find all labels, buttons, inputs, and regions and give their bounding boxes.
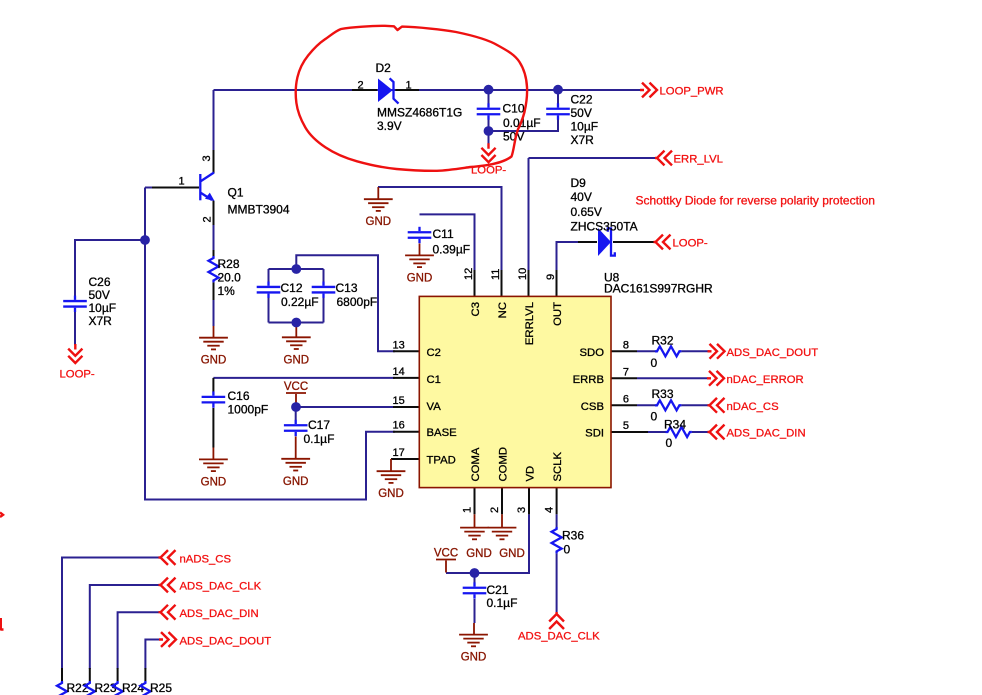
junction C12/C13 top — [291, 264, 301, 274]
svg-text:14: 14 — [393, 366, 405, 378]
black stub IC pin3 VD — [528, 488, 530, 514]
svg-text:10: 10 — [517, 268, 529, 280]
svg-text:R23: R23 — [95, 681, 117, 695]
svg-text:0: 0 — [651, 410, 658, 424]
svg-text:C21: C21 — [487, 583, 509, 597]
resistor R36 — [552, 527, 562, 553]
svg-text:OUT: OUT — [552, 302, 564, 326]
svg-text:GND: GND — [466, 548, 492, 560]
ground (TPAD) — [377, 471, 406, 500]
wire CSB row — [637, 404, 710, 406]
svg-text:C3: C3 — [470, 302, 482, 316]
svg-text:50V: 50V — [571, 106, 592, 120]
svg-text:10µF: 10µF — [571, 120, 599, 134]
black pin lead Q1 emitter — [213, 201, 215, 226]
svg-text:15: 15 — [393, 395, 405, 407]
svg-text:LOOP_PWR: LOOP_PWR — [660, 86, 724, 98]
svg-text:20.0: 20.0 — [218, 271, 242, 285]
maroon lead GND of R28 — [213, 326, 215, 338]
zener diode D2 — [378, 78, 399, 103]
svg-text:1000pF: 1000pF — [228, 403, 269, 417]
svg-text:NC: NC — [497, 302, 509, 318]
ground (C17) — [281, 459, 310, 488]
svg-text:5: 5 — [623, 420, 629, 432]
wire ADS_DAC_CLK harness — [90, 585, 159, 669]
net connector up ADS_DAC_CLK (R36) — [549, 612, 564, 629]
svg-text:ZHCS350TA: ZHCS350TA — [571, 220, 638, 234]
black stub IC pin7 ERRB — [611, 377, 637, 379]
svg-text:ADS_DAC_CLK: ADS_DAC_CLK — [180, 581, 262, 593]
net connector out LOOP_PWR — [640, 83, 657, 98]
svg-text:nADS_CS: nADS_CS — [180, 553, 232, 565]
wire Q1 base — [145, 187, 199, 189]
wire C21 lower lead — [474, 599, 476, 623]
svg-text:C26: C26 — [89, 275, 111, 289]
resistor R28 — [209, 256, 219, 282]
wire C10 upper lead — [488, 93, 490, 104]
svg-text:SDI: SDI — [585, 428, 604, 440]
ground (C12/C13) — [282, 337, 311, 366]
svg-text:D2: D2 — [376, 61, 392, 75]
svg-text:1: 1 — [406, 80, 412, 92]
net connector in nDAC_CS — [708, 398, 725, 413]
black stub IC pin5 SDI — [611, 431, 648, 433]
svg-text:ADS_DAC_DOUT: ADS_DAC_DOUT — [727, 347, 819, 359]
svg-text:nDAC_CS: nDAC_CS — [727, 401, 780, 413]
svg-text:R33: R33 — [652, 387, 674, 401]
svg-text:BASE: BASE — [427, 427, 458, 439]
black pin lead Q1 base — [152, 187, 199, 189]
svg-text:R32: R32 — [652, 334, 674, 348]
svg-text:9: 9 — [545, 274, 557, 280]
maroon lead GND of C16 — [212, 448, 214, 460]
resistor R34 — [666, 427, 692, 437]
svg-text:C11: C11 — [433, 227, 454, 241]
svg-text:0.1µF: 0.1µF — [304, 432, 335, 446]
black stub IC pin9 — [556, 270, 558, 296]
net connector in ADS_DAC_CLK (harness) — [159, 578, 176, 593]
svg-text:6800pF: 6800pF — [337, 295, 378, 309]
black stub IC pin14 — [393, 377, 419, 379]
black stub IC pin13 — [393, 350, 419, 352]
wire Q1 collector riser — [213, 90, 215, 173]
svg-text:8: 8 — [623, 339, 629, 351]
resistor R24 — [113, 681, 123, 695]
svg-text:11: 11 — [490, 269, 502, 280]
wire ADS_DAC_DIN harness — [118, 612, 159, 669]
net connector out ADS_DAC_DOUT (harness) — [159, 632, 176, 647]
junction VCC/VA — [291, 402, 301, 412]
svg-text:40V: 40V — [571, 190, 592, 204]
capacitor C22 — [546, 103, 570, 119]
svg-text:R25: R25 — [150, 681, 172, 695]
wire SDO row — [637, 350, 710, 352]
black pin leads D2 — [352, 89, 419, 91]
net connector in nADS_CS — [159, 550, 176, 565]
black lead D9 anode — [578, 241, 597, 243]
wire nADS_CS harness — [62, 558, 159, 670]
svg-text:DAC161S997RGHR: DAC161S997RGHR — [604, 282, 713, 296]
black lead D9 cathode — [613, 241, 654, 243]
wire C12/C13 top net to pin13 C2 — [296, 255, 395, 351]
svg-text:C17: C17 — [308, 418, 330, 432]
ground (COMD) — [488, 528, 517, 540]
svg-text:Q1: Q1 — [228, 186, 244, 200]
black stub IC pin17 TPAD — [391, 458, 419, 460]
wire C21 upper lead — [474, 573, 476, 583]
wire VD to VCC junction — [446, 514, 529, 573]
wire LOOP- stub under C10 — [488, 134, 490, 147]
wire C10/C22 bottom link — [489, 120, 559, 132]
capacitor C21 — [463, 582, 487, 598]
wire SDI row — [648, 431, 710, 433]
svg-text:0.39µF: 0.39µF — [433, 243, 471, 257]
wire NC to GND — [378, 187, 502, 272]
svg-text:0.65V: 0.65V — [571, 205, 602, 219]
maroon lead GND of TPAD — [390, 459, 392, 471]
svg-text:7: 7 — [623, 366, 629, 378]
resistor R23 — [85, 681, 95, 695]
junction C10 bottom — [484, 126, 494, 136]
svg-text:R34: R34 — [664, 418, 686, 432]
ground (C11) — [405, 255, 434, 284]
svg-text:1: 1 — [461, 507, 473, 513]
schottky diode D9 — [598, 228, 615, 256]
wire R28 to GND — [213, 282, 215, 326]
black pin lead Q1 collector — [213, 150, 215, 173]
net connector in ERR_LVL — [655, 151, 672, 166]
annotation red circle — [296, 26, 527, 171]
wire C26 lower lead — [74, 312, 76, 346]
svg-text:0.1µF: 0.1µF — [487, 596, 518, 610]
junction C26 tap — [140, 235, 150, 245]
net connector in LOOP- (D9) — [654, 235, 671, 250]
wire C10 lower lead — [488, 119, 490, 128]
black stub IC pin4 SCLK — [556, 488, 558, 514]
net connector out ADS_DAC_DOUT (SDO) — [708, 344, 725, 359]
svg-text:C1: C1 — [427, 374, 441, 386]
svg-text:0: 0 — [666, 436, 673, 450]
wire ERR_LVL — [529, 158, 656, 272]
svg-text:13: 13 — [393, 339, 405, 351]
wire ERRB row — [637, 377, 708, 379]
black lead C16 top — [212, 378, 214, 393]
svg-text:C10: C10 — [503, 102, 525, 116]
svg-text:Schottky Diode for reverse pol: Schottky Diode for reverse polarity prot… — [636, 194, 875, 208]
black stub IC pin16 — [393, 431, 419, 433]
capacitor C13 — [312, 282, 336, 298]
wire C12/C13 parallel box — [269, 269, 324, 323]
svg-text:ADS_DAC_CLK: ADS_DAC_CLK — [518, 631, 600, 643]
svg-text:C13: C13 — [336, 281, 358, 295]
svg-text:0: 0 — [651, 356, 658, 370]
svg-text:COMA: COMA — [470, 447, 482, 481]
svg-text:MMBT3904: MMBT3904 — [228, 203, 290, 217]
black stub IC pin10 — [528, 270, 530, 296]
maroon lead GND of NC — [377, 187, 379, 199]
black pin lead R28 top — [213, 250, 215, 256]
ground (COMA) — [460, 528, 489, 540]
power VCC (VD pin) — [434, 548, 458, 573]
svg-text:ERRLVL: ERRLVL — [524, 302, 536, 345]
svg-text:4: 4 — [543, 507, 555, 513]
svg-text:2: 2 — [489, 507, 501, 513]
wire R36 to ADS_DAC_CLK — [556, 553, 558, 612]
wire Q1 emitter to R28 — [213, 201, 215, 256]
svg-text:X7R: X7R — [571, 133, 595, 147]
svg-text:C22: C22 — [571, 93, 593, 107]
capacitor C17 — [284, 420, 308, 436]
black stub IC pin6 CSB — [611, 404, 637, 406]
capacitor C12 — [257, 282, 281, 298]
junction C22 top — [553, 85, 563, 95]
svg-text:MMSZ4686T1G: MMSZ4686T1G — [377, 106, 462, 120]
svg-text:SCLK: SCLK — [552, 452, 564, 482]
black stub IC pin8 SDO — [611, 350, 637, 352]
wire C26 tap — [75, 240, 145, 296]
svg-text:R22: R22 — [67, 681, 89, 695]
capacitor C10 — [477, 103, 501, 119]
black stub IC pin11 — [501, 270, 503, 296]
resistor R33 — [655, 400, 681, 410]
svg-text:VD: VD — [525, 466, 537, 482]
wire top rail LOOP_PWR — [214, 89, 642, 91]
resistor R22 — [57, 681, 67, 695]
svg-text:16: 16 — [393, 420, 405, 432]
svg-text:3: 3 — [201, 155, 213, 161]
junction C10 top — [484, 85, 494, 95]
capacitor C11 — [408, 227, 432, 243]
ground (R28) — [199, 338, 228, 367]
power arrow LOOP- (C26) — [68, 344, 82, 363]
svg-text:2: 2 — [358, 80, 364, 92]
svg-text:6: 6 — [623, 393, 629, 405]
svg-text:ADS_DAC_DIN: ADS_DAC_DIN — [727, 428, 806, 440]
junction C12/C13 bottom — [291, 318, 301, 328]
junction VD/C21 — [470, 568, 480, 578]
capacitor C26 — [63, 296, 87, 312]
IC U8 DAC161S997RGHR body — [419, 296, 611, 487]
svg-text:R36: R36 — [562, 529, 584, 543]
svg-text:17: 17 — [393, 447, 405, 459]
black stub IC pin12 — [474, 270, 476, 296]
black stub IC pin15 — [393, 406, 419, 408]
svg-text:3.9V: 3.9V — [377, 119, 402, 133]
ground (NC pin11) — [364, 199, 393, 228]
maroon lead GND of C17 — [295, 437, 297, 459]
svg-text:10µF: 10µF — [89, 301, 117, 315]
black stubs harness resistors R22-R25 — [62, 668, 145, 681]
net connector in ADS_DAC_DIN (harness) — [159, 605, 176, 620]
transistor Q1 MMBT3904 — [200, 173, 214, 202]
svg-text:GND: GND — [499, 548, 525, 560]
resistor R32 — [655, 346, 681, 356]
svg-text:12: 12 — [463, 268, 475, 280]
svg-text:1: 1 — [179, 176, 185, 188]
power VCC (VA pin) — [284, 381, 308, 406]
svg-text:50V: 50V — [89, 288, 110, 302]
svg-text:R28: R28 — [218, 257, 240, 271]
svg-text:R24: R24 — [122, 681, 144, 695]
wire C11 top to pin12 — [420, 214, 475, 272]
svg-text:SDO: SDO — [580, 347, 605, 359]
wire C17 upper lead — [295, 407, 297, 420]
svg-text:2: 2 — [202, 216, 214, 222]
svg-text:ERRB: ERRB — [573, 374, 604, 386]
maroon lead GND of C21 — [473, 623, 475, 635]
net connector out nDAC_ERROR — [707, 371, 724, 386]
svg-text:nDAC_ERROR: nDAC_ERROR — [727, 374, 804, 386]
black pin lead R28 bottom — [213, 282, 215, 300]
ground (C21) — [459, 635, 488, 664]
svg-text:0.22µF: 0.22µF — [281, 295, 319, 309]
wire ADS_DAC_DOUT harness — [145, 640, 159, 670]
svg-text:ADS_DAC_DOUT: ADS_DAC_DOUT — [180, 635, 272, 647]
wire C16 to pin14 C1 — [213, 377, 395, 379]
svg-text:CSB: CSB — [581, 401, 604, 413]
svg-text:C16: C16 — [228, 389, 250, 403]
svg-text:C2: C2 — [427, 347, 441, 359]
wire left loop to BASE pin — [145, 188, 395, 500]
black lead C16 bottom — [212, 408, 214, 448]
left edge red fragment upper — [0, 513, 3, 518]
net connector in ADS_DAC_DIN (SDI) — [708, 425, 725, 440]
svg-text:COMD: COMD — [498, 447, 510, 482]
svg-text:ERR_LVL: ERR_LVL — [674, 154, 723, 166]
wire VCC to pin15 VA — [296, 406, 395, 408]
wire OUT to D9 — [557, 242, 581, 272]
svg-text:LOOP-: LOOP- — [60, 369, 95, 381]
wire SCLK to R36 — [556, 514, 558, 527]
svg-text:LOOP-: LOOP- — [673, 238, 708, 250]
left edge red fragment lower — [1, 618, 4, 631]
maroon lead GND of C12/C13 — [295, 323, 297, 338]
svg-text:3: 3 — [516, 507, 528, 513]
black stub IC pin2 COMD — [501, 488, 503, 514]
power arrow LOOP- (C10) — [481, 143, 495, 162]
wire C22 upper lead — [557, 93, 559, 104]
svg-text:1%: 1% — [218, 284, 236, 298]
maroon lead GND of COMA — [474, 514, 476, 527]
svg-text:0: 0 — [564, 543, 571, 557]
resistor R25 — [140, 681, 150, 695]
ground (C16) — [199, 459, 228, 488]
svg-text:TPAD: TPAD — [427, 455, 456, 467]
svg-text:C12: C12 — [281, 281, 303, 295]
maroon lead GND of C11 — [419, 244, 421, 256]
maroon lead GND of COMD — [501, 514, 503, 527]
svg-text:VA: VA — [427, 401, 442, 413]
svg-text:D9: D9 — [571, 176, 587, 190]
svg-text:ADS_DAC_DIN: ADS_DAC_DIN — [180, 608, 259, 620]
capacitor C16 — [202, 391, 226, 407]
svg-text:X7R: X7R — [89, 314, 113, 328]
black stub IC pin1 COMA — [474, 488, 476, 514]
